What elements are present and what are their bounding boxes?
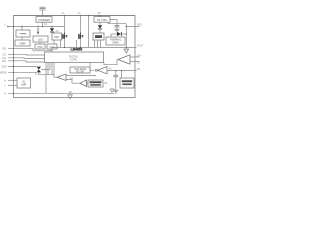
box osc B4 (35, 44, 45, 49)
box bandgap B2 (15, 40, 30, 46)
svg-text:MC: MC (2, 60, 6, 63)
svg-text:FILTER: FILTER (76, 70, 84, 73)
box charge pump B8 (94, 15, 110, 22)
box ref B12 (88, 80, 108, 87)
arrow into LDO (37, 27, 40, 35)
top rail wire VDD (14, 15, 136, 17)
svg-text:LO+: LO+ (137, 54, 142, 57)
VBAT supply flag (40, 7, 46, 15)
svg-text:PWRDN: PWRDN (0, 71, 7, 74)
diode D3 (111, 32, 126, 36)
diode D1 (50, 26, 60, 33)
wire pin MUTE (8, 66, 37, 67)
box bias B9 (93, 33, 104, 47)
svg-text:VDD: VDD (137, 24, 142, 27)
wire pin IN- (8, 84, 17, 86)
TVS dual diode D4 (37, 63, 57, 78)
svg-text:SHDN: SHDN (112, 41, 119, 44)
node wire PV y47 (52, 47, 137, 48)
svg-text:LDO: LDO (38, 38, 43, 41)
ground arrow mid (68, 91, 73, 98)
wire pin SDA (8, 57, 45, 58)
svg-text:G: G (4, 92, 6, 95)
IC boundary frame U1 (14, 16, 136, 98)
box comparator B13 (120, 71, 134, 88)
ground (124, 47, 129, 53)
op-amp A1 (57, 74, 96, 83)
wire pin SCL (8, 54, 45, 55)
svg-text:VOUT: VOUT (137, 45, 144, 48)
svg-text:FB: FB (137, 68, 140, 71)
wire pin GND long (8, 93, 114, 94)
wire right rail (126, 24, 127, 48)
box clock B5 (47, 44, 57, 51)
diode D2 (98, 22, 102, 33)
main IC block U2 (45, 47, 104, 62)
svg-text:CDN: CDN (1, 66, 6, 69)
capacitor C4 (115, 24, 120, 29)
op-amp A2 (80, 80, 88, 87)
wire B8 to cap net (108, 20, 126, 24)
wire bus into IC left (8, 47, 52, 52)
wire A3 output (107, 70, 137, 71)
ground (115, 29, 120, 32)
svg-text:CORE: CORE (70, 59, 77, 62)
box regulator B1 (16, 27, 30, 41)
ground stub right (110, 88, 114, 93)
box LDO B3 (33, 36, 54, 44)
ground (113, 90, 118, 93)
wire VDD to B8 (88, 16, 90, 48)
svg-text:CHARGER: CHARGER (38, 19, 50, 22)
box charger B7 (36, 17, 52, 27)
transistor Q2 (77, 15, 84, 47)
svg-text:AMP: AMP (21, 84, 27, 87)
box thermal B10 (106, 34, 125, 45)
pin wire VDD2 out (126, 26, 139, 28)
box filter B11 (70, 67, 90, 73)
box gate driver B6 (52, 33, 62, 40)
svg-text:I-: I- (5, 84, 7, 87)
box input amp B14 (17, 78, 31, 88)
transistor Q1 (61, 15, 68, 47)
input pin wire VIN y26 (7, 26, 64, 28)
svg-text:CP: CP (97, 12, 101, 15)
wire pin STBY (8, 72, 36, 75)
wire pin IN+ (8, 79, 17, 81)
svg-text:OSC: OSC (37, 46, 42, 49)
svg-text:VREF: VREF (19, 43, 26, 46)
inverter A3 (90, 63, 112, 74)
op-amp A4 (104, 55, 139, 65)
svg-text:LO-: LO- (137, 62, 141, 65)
svg-text:DRV: DRV (54, 36, 59, 39)
svg-text:EN: EN (3, 47, 7, 50)
capacitor C5 (113, 71, 118, 90)
svg-text:LM4863: LM4863 (71, 47, 83, 51)
svg-text:CP CTRL: CP CTRL (97, 19, 108, 22)
wire bus under IC (46, 63, 54, 94)
wire pin MC (8, 60, 45, 62)
